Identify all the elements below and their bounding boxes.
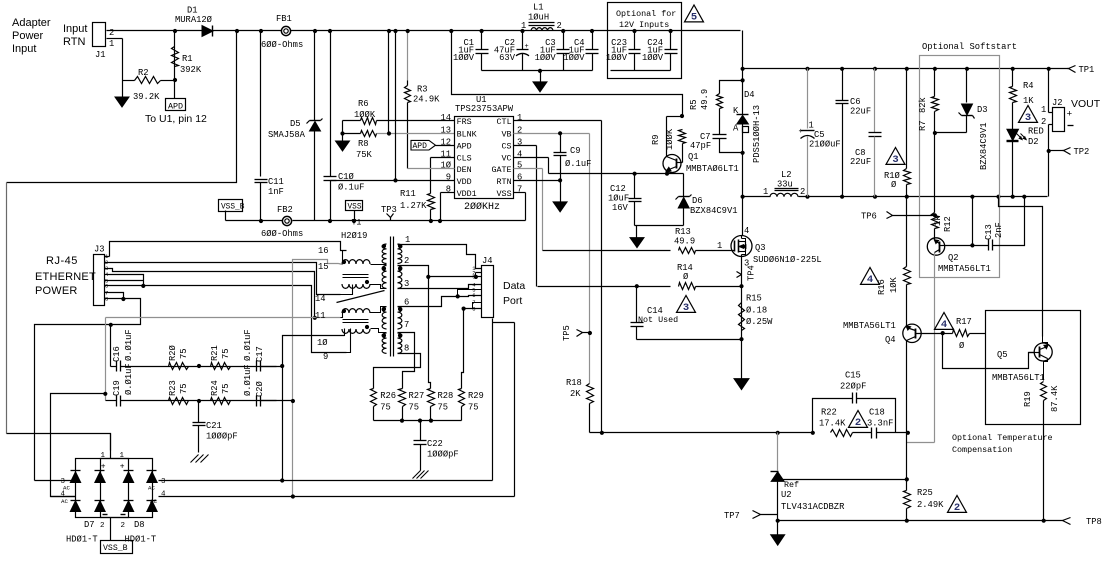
svg-text:16V: 16V: [612, 203, 629, 213]
svg-text:1ØØV: 1ØØV: [563, 53, 585, 63]
svg-text:8: 8: [105, 296, 108, 303]
svg-text:1: 1: [717, 241, 722, 251]
svg-text:TP4: TP4: [747, 265, 757, 281]
svg-text:1: 1: [521, 21, 526, 31]
svg-text:TP2: TP2: [1074, 147, 1090, 157]
svg-text:D7: D7: [84, 520, 95, 530]
svg-text:BZX84C9V1: BZX84C9V1: [690, 206, 738, 216]
svg-text:VC: VC: [502, 154, 512, 164]
svg-text:D5: D5: [290, 119, 301, 129]
svg-text:1: 1: [405, 235, 410, 245]
svg-text:75: 75: [380, 403, 391, 413]
svg-text:1ØuF: 1ØuF: [608, 194, 629, 204]
svg-text:1Ø: 1Ø: [440, 161, 451, 171]
svg-text:R2Ø: R2Ø: [168, 344, 178, 361]
svg-text:75: 75: [468, 403, 479, 413]
svg-text:C19: C19: [112, 380, 122, 396]
svg-text:CTL: CTL: [497, 117, 512, 127]
svg-text:1ØØV: 1ØØV: [642, 53, 664, 63]
svg-text:Ø: Ø: [959, 341, 965, 351]
svg-text:87.4K: 87.4K: [1050, 385, 1060, 412]
svg-text:R5: R5: [689, 99, 699, 110]
svg-text:R9: R9: [651, 134, 661, 145]
svg-text:2.49K: 2.49K: [917, 500, 944, 510]
svg-text:9: 9: [323, 352, 328, 362]
svg-text:6ØØ-Ohms: 6ØØ-Ohms: [261, 40, 303, 50]
svg-text:R2: R2: [138, 68, 149, 78]
svg-text:R3: R3: [417, 85, 428, 95]
svg-text:C2Ø: C2Ø: [255, 380, 265, 397]
svg-text:HDØ1-T: HDØ1-T: [125, 535, 157, 545]
svg-text:C6: C6: [850, 97, 861, 107]
svg-text:R8: R8: [358, 139, 369, 149]
svg-text:VDD1: VDD1: [457, 189, 477, 199]
svg-text:HDØ1-T: HDØ1-T: [66, 535, 98, 545]
svg-text:R11: R11: [400, 189, 416, 199]
svg-text:RTN: RTN: [63, 36, 85, 48]
svg-text:MMBTA56LT1: MMBTA56LT1: [938, 264, 991, 274]
svg-text:Optional Temperature: Optional Temperature: [952, 433, 1053, 443]
svg-text:RJ-45: RJ-45: [46, 255, 78, 267]
svg-text:D3: D3: [977, 105, 988, 115]
svg-text:U2: U2: [781, 490, 792, 500]
svg-text:Ø.Ø1uF: Ø.Ø1uF: [243, 329, 253, 361]
svg-text:3: 3: [683, 302, 689, 314]
svg-text:J1: J1: [95, 50, 106, 60]
svg-text:Input: Input: [12, 43, 36, 55]
svg-text:MMBTAØ6LT1: MMBTAØ6LT1: [686, 164, 739, 174]
svg-text:6: 6: [105, 282, 108, 289]
svg-text:Q2: Q2: [948, 253, 959, 263]
svg-text:1: 1: [517, 113, 522, 123]
svg-text:C11: C11: [268, 177, 284, 187]
svg-text:3: 3: [1025, 112, 1031, 124]
svg-text:RTN: RTN: [497, 177, 512, 187]
svg-text:1: 1: [763, 187, 768, 197]
svg-text:+: +: [799, 128, 804, 136]
svg-text:Ø.1uF: Ø.1uF: [565, 159, 591, 169]
svg-text:FB1: FB1: [276, 14, 292, 24]
svg-text:+: +: [1067, 109, 1073, 120]
svg-text:17.4K: 17.4K: [819, 419, 846, 429]
svg-text:CS: CS: [502, 142, 512, 152]
svg-text:Data: Data: [503, 280, 525, 292]
svg-text:R26: R26: [380, 391, 396, 401]
svg-text:75: 75: [179, 383, 189, 394]
svg-text:H2Ø19: H2Ø19: [341, 231, 367, 241]
svg-text:6ØØ-Ohms: 6ØØ-Ohms: [261, 229, 303, 239]
svg-text:VSS: VSS: [348, 204, 362, 212]
svg-text:APD: APD: [168, 102, 183, 112]
svg-text:D2: D2: [1028, 137, 1039, 147]
svg-text:R29: R29: [468, 391, 484, 401]
svg-text:R28: R28: [438, 391, 454, 401]
svg-text:22ØpF: 22ØpF: [840, 382, 866, 392]
svg-text:22uF: 22uF: [850, 107, 871, 117]
svg-text:3: 3: [892, 154, 898, 166]
svg-text:Ø.1uF: Ø.1uF: [338, 183, 364, 193]
svg-text:J2: J2: [1052, 98, 1063, 108]
svg-text:VB: VB: [502, 130, 512, 140]
svg-text:1ØØØpF: 1ØØØpF: [206, 432, 238, 442]
svg-text:24.9K: 24.9K: [413, 95, 440, 105]
svg-text:R15: R15: [746, 294, 762, 304]
svg-text:Q5: Q5: [997, 350, 1008, 360]
svg-text:TP5: TP5: [562, 325, 572, 341]
svg-text:2: 2: [800, 187, 805, 197]
svg-text:VSS_B: VSS_B: [221, 204, 245, 212]
svg-text:2nF: 2nF: [994, 222, 1004, 238]
svg-text:FRS: FRS: [457, 117, 472, 127]
svg-text:1.27K: 1.27K: [400, 201, 427, 211]
svg-text:1: 1: [1041, 105, 1046, 115]
svg-text:Port: Port: [503, 295, 522, 307]
svg-text:R24: R24: [210, 380, 220, 396]
svg-text:75: 75: [438, 403, 449, 413]
svg-text:1ØuH: 1ØuH: [528, 13, 549, 23]
svg-text:AC: AC: [61, 498, 68, 505]
svg-text:T1: T1: [352, 219, 362, 228]
svg-text:DEN: DEN: [457, 165, 472, 175]
svg-text:C15: C15: [845, 371, 861, 381]
svg-text:2: 2: [100, 522, 105, 530]
svg-text:6: 6: [517, 173, 522, 183]
svg-text:C17: C17: [255, 346, 265, 362]
svg-text:MMBTA56LT1: MMBTA56LT1: [843, 321, 896, 331]
svg-text:1K: 1K: [1023, 96, 1034, 106]
svg-text:2ØØKHz: 2ØØKHz: [464, 201, 500, 213]
svg-text:75: 75: [409, 403, 420, 413]
svg-text:TP3: TP3: [381, 205, 397, 215]
svg-text:TP6: TP6: [861, 212, 877, 222]
svg-text:D8: D8: [134, 520, 145, 530]
svg-text:Ø.18: Ø.18: [746, 306, 767, 316]
svg-text:33u: 33u: [777, 180, 793, 190]
svg-text:1: 1: [109, 39, 114, 49]
svg-text:1ØØV: 1ØØV: [606, 53, 628, 63]
svg-text:11: 11: [315, 311, 326, 321]
svg-text:To U1, pin 12: To U1, pin 12: [145, 113, 207, 125]
svg-text:C13: C13: [984, 224, 994, 240]
svg-text:C16: C16: [112, 346, 122, 362]
svg-text:C18: C18: [869, 408, 885, 418]
svg-text:49.9: 49.9: [674, 237, 695, 247]
svg-text:1: 1: [120, 452, 125, 460]
svg-text:Ø: Ø: [891, 180, 897, 190]
svg-text:D1: D1: [187, 6, 198, 16]
svg-text:1ØØØpF: 1ØØØpF: [427, 450, 459, 460]
svg-text:2: 2: [121, 522, 126, 530]
svg-text:4: 4: [867, 274, 873, 286]
svg-text:R23: R23: [168, 380, 178, 396]
svg-text:1Ø: 1Ø: [317, 338, 328, 348]
svg-text:TPS23753APW: TPS23753APW: [455, 104, 514, 114]
svg-text:22uF: 22uF: [850, 157, 871, 167]
svg-text:1: 1: [809, 121, 814, 131]
svg-text:Q3: Q3: [755, 243, 766, 253]
svg-text:APD: APD: [413, 142, 428, 151]
svg-text:2: 2: [954, 502, 960, 514]
svg-text:Ø.Ø1uF: Ø.Ø1uF: [124, 363, 134, 395]
svg-text:14: 14: [315, 294, 326, 304]
svg-text:2K: 2K: [570, 389, 581, 399]
svg-text:2: 2: [404, 256, 409, 266]
svg-text:12V Inputs: 12V Inputs: [619, 20, 669, 30]
svg-text:1: 1: [101, 452, 106, 460]
svg-text:9: 9: [446, 173, 451, 183]
svg-text:1ØØV: 1ØØV: [535, 53, 557, 63]
svg-text:C9: C9: [570, 146, 581, 156]
svg-text:A: A: [733, 124, 739, 134]
svg-text:2: 2: [557, 21, 562, 31]
svg-text:AC: AC: [150, 498, 157, 505]
svg-text:AC: AC: [148, 485, 155, 492]
svg-text:1ØØK: 1ØØK: [354, 110, 376, 120]
svg-text:2: 2: [109, 28, 114, 38]
svg-text:D4: D4: [744, 90, 755, 100]
svg-text:Ref: Ref: [784, 480, 799, 490]
svg-text:MURA12Ø: MURA12Ø: [175, 15, 213, 25]
svg-text:4: 4: [161, 491, 166, 499]
svg-text:D6: D6: [692, 196, 703, 206]
svg-text:7: 7: [517, 185, 522, 195]
svg-text:392K: 392K: [180, 65, 202, 75]
svg-text:C12: C12: [610, 184, 626, 194]
svg-text:RED: RED: [1028, 127, 1044, 137]
svg-text:R18: R18: [566, 378, 582, 388]
svg-text:VOUT: VOUT: [1071, 98, 1101, 110]
svg-text:8: 8: [472, 305, 475, 312]
svg-text:R19: R19: [1023, 391, 1033, 407]
svg-text:47pF: 47pF: [690, 141, 711, 151]
svg-text:75: 75: [179, 348, 189, 359]
svg-text:L1: L1: [533, 3, 544, 13]
svg-text:TLV431ACDBZR: TLV431ACDBZR: [781, 502, 845, 512]
svg-text:49.9: 49.9: [700, 89, 710, 110]
svg-text:VSS_B: VSS_B: [103, 544, 128, 553]
svg-text:POWER: POWER: [35, 285, 78, 297]
svg-text:3: 3: [404, 279, 409, 289]
svg-text:R13: R13: [675, 227, 691, 237]
svg-text:C5: C5: [814, 130, 825, 140]
svg-text:R27: R27: [409, 391, 425, 401]
svg-text:SMAJ58A: SMAJ58A: [268, 130, 306, 140]
svg-text:4: 4: [941, 319, 947, 331]
svg-text:39.2K: 39.2K: [133, 92, 160, 102]
svg-text:+: +: [120, 463, 125, 472]
svg-text:Ø.Ø1uF: Ø.Ø1uF: [124, 329, 134, 361]
svg-text:7: 7: [404, 320, 409, 330]
svg-text:Ø.Ø1uF: Ø.Ø1uF: [243, 364, 253, 396]
svg-text:C22: C22: [427, 439, 443, 449]
svg-text:63V: 63V: [499, 53, 516, 63]
svg-text:MMBTA56LT1: MMBTA56LT1: [992, 373, 1045, 383]
svg-text:75: 75: [221, 383, 231, 394]
svg-text:R12: R12: [943, 216, 953, 232]
svg-text:Adapter: Adapter: [12, 17, 51, 29]
svg-text:R7: R7: [918, 120, 928, 131]
svg-text:TP1: TP1: [1079, 65, 1095, 75]
svg-text:3: 3: [161, 478, 166, 486]
svg-text:CLS: CLS: [457, 154, 472, 164]
svg-text:3.3nF: 3.3nF: [867, 419, 893, 429]
svg-text:Power: Power: [12, 30, 44, 42]
svg-text:SUDØ6N1Ø-225L: SUDØ6N1Ø-225L: [753, 255, 822, 265]
svg-text:Optional for: Optional for: [616, 9, 676, 19]
svg-text:R22: R22: [821, 408, 837, 418]
svg-text:BLNK: BLNK: [457, 130, 478, 140]
svg-text:GATE: GATE: [491, 165, 511, 175]
svg-text:R4: R4: [1023, 81, 1034, 91]
svg-text:Ø.25W: Ø.25W: [746, 317, 773, 327]
svg-text:J4: J4: [482, 256, 493, 266]
svg-text:FB2: FB2: [277, 205, 293, 215]
svg-text:21ØØuF: 21ØØuF: [809, 140, 841, 150]
svg-text:Input: Input: [63, 23, 87, 35]
svg-text:APD: APD: [457, 142, 472, 152]
svg-text:2: 2: [1041, 117, 1046, 127]
svg-text:TP7: TP7: [724, 511, 740, 521]
svg-text:R6: R6: [358, 99, 369, 109]
svg-text:+: +: [101, 463, 106, 472]
svg-text:82k: 82k: [918, 97, 928, 113]
svg-text:8: 8: [404, 344, 409, 354]
svg-text:PDS51ØØH-13: PDS51ØØH-13: [752, 105, 762, 163]
svg-text:R1: R1: [182, 54, 193, 64]
svg-text:2: 2: [855, 417, 861, 429]
svg-text:TP8: TP8: [1086, 517, 1102, 527]
svg-text:75: 75: [221, 348, 231, 359]
svg-text:L2: L2: [781, 170, 792, 180]
svg-text:Optional Softstart: Optional Softstart: [922, 42, 1017, 52]
svg-text:J3: J3: [94, 245, 105, 255]
svg-text:3: 3: [472, 274, 475, 281]
svg-text:5: 5: [691, 12, 697, 24]
svg-text:Q4: Q4: [885, 335, 896, 345]
svg-text:+: +: [525, 43, 529, 51]
svg-text:4: 4: [744, 226, 749, 236]
svg-text:Compensation: Compensation: [952, 445, 1012, 455]
svg-text:1ØK: 1ØK: [889, 276, 899, 293]
svg-text:8: 8: [446, 185, 451, 195]
svg-text:16: 16: [318, 246, 329, 256]
svg-text:R21: R21: [210, 345, 220, 361]
svg-text:75K: 75K: [356, 150, 373, 160]
svg-text:Q1: Q1: [688, 152, 699, 162]
svg-text:R25: R25: [917, 488, 933, 498]
svg-text:5: 5: [517, 161, 522, 171]
svg-text:R17: R17: [956, 317, 972, 327]
svg-text:14: 14: [440, 113, 451, 123]
svg-text:15: 15: [318, 262, 329, 272]
svg-text:VDD: VDD: [457, 177, 472, 187]
svg-text:Not Used: Not Used: [638, 315, 678, 325]
svg-text:1nF: 1nF: [268, 187, 284, 197]
svg-text:BZX84C9V1: BZX84C9V1: [979, 122, 989, 170]
svg-text:C21: C21: [206, 421, 222, 431]
svg-text:13: 13: [440, 126, 451, 136]
svg-text:Ø: Ø: [683, 272, 689, 282]
svg-text:K: K: [733, 106, 739, 116]
svg-text:VSS: VSS: [497, 189, 512, 199]
svg-text:1ØØV: 1ØØV: [453, 53, 475, 63]
svg-text:ETHERNET: ETHERNET: [35, 271, 96, 283]
